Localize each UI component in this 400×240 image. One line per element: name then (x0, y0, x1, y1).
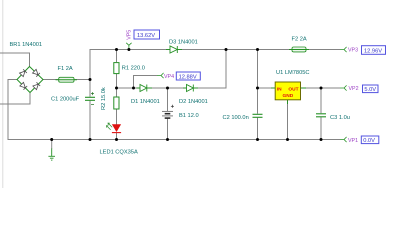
svg-text:0.0V: 0.0V (363, 138, 375, 144)
svg-text:F2 2A: F2 2A (292, 36, 307, 42)
svg-text:VP3: VP3 (348, 48, 358, 54)
svg-text:D1 1N4001: D1 1N4001 (131, 99, 160, 105)
svg-text:B1 12.0: B1 12.0 (179, 113, 199, 119)
svg-text:BR1 1N4001: BR1 1N4001 (10, 42, 43, 48)
svg-text:13.62V: 13.62V (137, 33, 155, 39)
svg-text:R2 15.0k: R2 15.0k (101, 87, 107, 110)
svg-text:F1 2A: F1 2A (58, 66, 73, 72)
svg-text:D2 1N4001: D2 1N4001 (179, 99, 208, 105)
svg-text:C1 2000uF: C1 2000uF (51, 97, 80, 103)
svg-text:C3 1.0u: C3 1.0u (330, 115, 350, 121)
svg-text:VP2: VP2 (349, 86, 359, 92)
svg-text:VP1: VP1 (348, 138, 358, 144)
svg-text:D3 1N4001: D3 1N4001 (169, 39, 198, 45)
svg-text:12.88V: 12.88V (179, 74, 197, 80)
svg-text:LED1 CQX35A: LED1 CQX35A (100, 150, 138, 156)
svg-text:IN: IN (277, 87, 282, 93)
svg-text:VP5: VP5 (126, 30, 132, 40)
svg-text:OUT: OUT (288, 87, 298, 93)
svg-text:R1 220.0: R1 220.0 (122, 66, 145, 72)
svg-text:GND: GND (283, 93, 294, 99)
svg-text:5.0V: 5.0V (364, 87, 376, 93)
svg-text:12.96V: 12.96V (364, 48, 382, 54)
svg-text:C2 100.0n: C2 100.0n (223, 115, 249, 121)
svg-text:U1 LM7805C: U1 LM7805C (276, 70, 310, 76)
svg-text:VP4: VP4 (164, 74, 174, 80)
